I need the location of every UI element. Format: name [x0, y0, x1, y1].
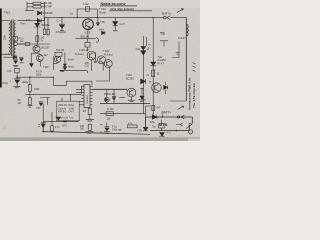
- ground R13: [86, 119, 94, 121]
- wire Q2 base loop: [31, 53, 40, 63]
- svg-text:100k: 100k: [34, 88, 40, 91]
- connector bottom circle: [177, 116, 179, 118]
- wire TVS stem: [160, 120, 162, 131]
- svg-text:BATT+: BATT+: [162, 110, 172, 114]
- junction dot battery rail: [16, 76, 18, 78]
- right down stub: [191, 117, 193, 124]
- wire Q4 emitter down: [90, 60, 92, 71]
- junction tick under box: [63, 120, 67, 122]
- svg-text:TDA4813: TDA4813: [86, 94, 89, 104]
- ground C10: [104, 132, 110, 134]
- svg-text:T10x: T10x: [100, 21, 106, 24]
- diode D8 beside Q7: [164, 82, 168, 95]
- ground bar under R14: [85, 132, 93, 134]
- wire D6 lower: [113, 26, 118, 31]
- stub above junction: [161, 114, 163, 117]
- wire Q3 emitter: [87, 30, 89, 39]
- svg-text:TK 4.7: TK 4.7: [157, 63, 165, 66]
- svg-text:4 HZ: 4 HZ: [83, 2, 89, 6]
- wire T102 emitters: [103, 63, 109, 70]
- capacitor C10: [104, 123, 109, 131]
- bottom wire W1 left: [100, 113, 146, 115]
- wire aux winding lead: [3, 56, 13, 58]
- right bracket marks: [193, 63, 196, 72]
- wire R1 R2 left: [27, 2, 33, 11]
- transistor Q6 circle: [127, 88, 136, 97]
- paper background: [0, 0, 200, 141]
- svg-text:T100: T100: [43, 66, 49, 69]
- wire R8 stem: [29, 94, 31, 98]
- connector MTS chevron: [176, 123, 183, 126]
- transistor Q4 circle: [87, 51, 96, 60]
- wire W1 jog: [146, 106, 151, 117]
- svg-text:6.3 F: 6.3 F: [85, 31, 91, 35]
- trimmer symbol: [96, 38, 98, 43]
- svg-text:C 1u: C 1u: [6, 53, 12, 56]
- crystal branch vertical: [143, 36, 145, 114]
- resistor R10 on W1: [106, 112, 113, 116]
- junction dot W2 right: [176, 130, 178, 132]
- box small coupler: [13, 36, 17, 41]
- fuse F1 body: [86, 7, 90, 11]
- svg-text:1.: 1.: [50, 5, 52, 8]
- transistor Q5 internals: [56, 57, 59, 61]
- wire coupler to rail: [17, 43, 25, 45]
- svg-text:220k 1%: 220k 1%: [58, 105, 67, 107]
- bottom bus W2 right: [150, 130, 189, 132]
- svg-text:B+H+: B+H+: [68, 59, 75, 62]
- electrolytic C1 plates: [59, 24, 65, 28]
- bottom bus W2 left: [43, 132, 150, 135]
- node wire corner mid: [96, 70, 109, 81]
- junction blob on wire: [60, 70, 64, 72]
- connector bottom chevron: [181, 115, 184, 119]
- red ink dot: [3, 126, 6, 129]
- right area rail down: [185, 18, 187, 101]
- junction dot R12: [51, 131, 52, 132]
- junction dot R7: [29, 77, 30, 78]
- svg-text:T 104: T 104: [99, 7, 106, 11]
- diode D9 on W1: [152, 115, 157, 119]
- transistor T102a circle: [98, 56, 106, 64]
- small cap right: [176, 53, 180, 55]
- ground under R8: [27, 106, 32, 108]
- diode D5 on branch: [141, 79, 146, 84]
- battery BT1 electrolytic plates: [14, 79, 20, 84]
- svg-text:100n ngb: 100n ngb: [112, 130, 122, 132]
- wire IC row: [53, 77, 92, 85]
- wire stubs into U3: [62, 94, 70, 101]
- resistor R7 vertical: [28, 85, 31, 92]
- svg-text:100k: 100k: [36, 74, 42, 76]
- wire input stub: [25, 10, 34, 12]
- resistor R14 vertical: [88, 124, 91, 130]
- svg-text:C10: C10: [7, 70, 12, 73]
- transformer TR1 secondary winding: [14, 21, 16, 38]
- resistor R4: [47, 30, 49, 35]
- capacitor C3 polarized: [13, 60, 17, 64]
- svg-text:C10: C10: [136, 48, 141, 51]
- wire LED stems: [106, 89, 108, 103]
- resistor R8 vertical: [28, 98, 31, 105]
- diode pair stack: [63, 64, 67, 70]
- svg-text:T100 4k7: T100 4k7: [79, 49, 90, 52]
- wire right bus corner: [170, 100, 186, 102]
- wire W1 right: [146, 116, 193, 118]
- svg-text:1.45v: 1.45v: [69, 108, 75, 110]
- svg-text:BC237: BC237: [42, 46, 50, 50]
- svg-text:1A: 1A: [70, 13, 73, 16]
- battery BT1 stem and ground: [13, 83, 20, 87]
- LED DL1: [104, 97, 109, 102]
- transistor Q3 internals: [86, 21, 91, 28]
- resistor R6: [85, 42, 90, 47]
- svg-text:Anod: Anod: [68, 66, 74, 69]
- svg-text:BD139: BD139: [81, 35, 89, 38]
- wire R13 stems: [89, 108, 91, 119]
- svg-text:R 17k: R 17k: [36, 72, 43, 74]
- svg-text:4.7v: 4.7v: [26, 19, 31, 22]
- capacitor C8 blob on drop: [41, 123, 46, 132]
- wire W2 right corner up: [188, 124, 190, 130]
- wire battery stem: [16, 73, 18, 79]
- wire segment upper mid: [60, 71, 88, 73]
- crystal pair component: [141, 47, 146, 55]
- svg-text:4.7µ: 4.7µ: [112, 127, 117, 129]
- control box U3: [57, 101, 79, 121]
- transistor Q8 bottom right: [187, 123, 193, 133]
- IC U1 pin wires left: [76, 86, 81, 94]
- zener branch vertical wire: [36, 18, 38, 44]
- svg-text:Ref 2k2: Ref 2k2: [58, 112, 67, 114]
- node vertical join D1 D2: [41, 2, 44, 21]
- inductor L1 bumps: [186, 25, 188, 36]
- svg-text:TM1: TM1: [4, 11, 10, 15]
- wire R3 top: [45, 18, 48, 30]
- IC U1 left pins: [81, 86, 84, 105]
- transistor Q2 circle: [36, 55, 43, 62]
- svg-text:C +: C +: [57, 19, 62, 23]
- zener diode D3: [34, 23, 40, 27]
- BATT+ top connector chevron: [167, 16, 170, 20]
- svg-text:470µ/16v: 470µ/16v: [56, 30, 67, 34]
- wire Q3 collector: [87, 18, 89, 19]
- electrolytic C1 lower stem: [60, 28, 64, 30]
- resistor R9 on left feed: [152, 70, 155, 77]
- svg-text:TS: TS: [160, 32, 165, 36]
- transistor Q4 internals: [90, 53, 94, 59]
- svg-text:- . - .: - . - .: [178, 135, 183, 137]
- left scan edge black bar: [0, 9, 2, 88]
- main top rail wire: [44, 17, 163, 19]
- box logic U2: [55, 52, 62, 56]
- U3 blob: [56, 117, 61, 120]
- wire IC to control box: [79, 102, 81, 105]
- transistor T102b circle: [104, 60, 112, 68]
- svg-text:Cont 4v: Cont 4v: [58, 107, 67, 110]
- svg-text:230v: 230v: [4, 34, 7, 40]
- transistor Q1 circle: [33, 45, 40, 52]
- svg-text:Th+ 4.5k ohje 2m: Th+ 4.5k ohje 2m: [192, 83, 196, 108]
- svg-text:R-Anod: R-Anod: [75, 53, 84, 56]
- resistor R13 vertical mid: [88, 108, 91, 114]
- diode D11 under W2: [159, 133, 164, 137]
- wire Q2 emitter: [40, 61, 42, 66]
- junction dot C1: [61, 17, 62, 18]
- arrow batt top: [177, 9, 183, 13]
- left feed vertical: [152, 18, 154, 115]
- wire secondary top to rectifier: [17, 20, 36, 22]
- diode D1: [38, 11, 42, 15]
- wire mains to primary top: [2, 20, 9, 22]
- corner wire to cap branch: [40, 98, 50, 106]
- transistor Q5 circle: [54, 56, 60, 62]
- electrolytic C1 stem: [61, 18, 63, 24]
- transistor Q7 internals: [154, 84, 158, 91]
- box above battery: [15, 68, 20, 73]
- junction dot W1: [162, 116, 164, 118]
- capacitor C9 top blob: [39, 102, 44, 106]
- capacitor C5: [96, 23, 99, 26]
- svg-text:T on: T on: [69, 118, 74, 120]
- svg-text:Prim: Prim: [21, 23, 26, 26]
- title underline 1: [100, 5, 137, 7]
- junction dot mid rail: [37, 43, 38, 44]
- svg-text:1N4148: 1N4148: [44, 11, 54, 15]
- transistor Q1 internals: [35, 46, 38, 51]
- svg-text:BATT+: BATT+: [162, 12, 172, 16]
- capacitor C2 blob: [29, 63, 33, 66]
- left edge ticks: [100, 125, 102, 132]
- transistor T102b internals: [107, 61, 110, 67]
- svg-text:C+H: C+H: [120, 23, 125, 26]
- transistor Q6 internals: [130, 90, 134, 96]
- wire D2 anode: [36, 20, 37, 22]
- bottom scan shadow band: [0, 137, 200, 141]
- wire C5 stem: [97, 18, 99, 23]
- wire R1 R2 right: [41, 3, 44, 6]
- tee antenna symbol: [160, 41, 168, 47]
- svg-text:virta ohje antenni: virta ohje antenni: [110, 7, 134, 11]
- IC U1 body: [84, 85, 90, 108]
- ground bus mid: [100, 102, 150, 104]
- resistor R15 horizontal: [127, 125, 137, 128]
- resistor R2: [33, 6, 41, 8]
- wire mains to primary bottom: [2, 54, 9, 56]
- secondary right vertical: [172, 42, 179, 58]
- wire diode stack stem: [64, 52, 66, 64]
- svg-text:MTS: MTS: [159, 122, 168, 127]
- transformer TR1 primary winding: [9, 21, 11, 55]
- diode D7 on left feed: [150, 62, 156, 66]
- wire connector to corner: [170, 17, 186, 19]
- IC U1 right pins: [90, 86, 93, 105]
- resistor R11 above W1: [152, 105, 155, 110]
- svg-text:R 10k: R 10k: [107, 108, 114, 111]
- svg-text:1000µ: 1000µ: [22, 81, 29, 84]
- wire D10 stem: [145, 117, 147, 127]
- fuse bypass loop wire: [77, 9, 97, 18]
- wire Q5 leads: [53, 56, 57, 70]
- resistor R16 on mid rail: [25, 43, 30, 46]
- junction dot W2: [42, 131, 44, 133]
- svg-text:BC183: BC183: [126, 78, 134, 81]
- svg-text:1N4+: 1N4+: [150, 122, 156, 124]
- transistor Q2 internals: [38, 55, 41, 60]
- resistor R12 vertical: [51, 126, 54, 131]
- diode D4: [13, 55, 17, 59]
- svg-text:T 102: T 102: [103, 50, 110, 53]
- wire C7 stem: [113, 100, 115, 103]
- transformer TR1 core: [12, 20, 14, 57]
- wire R12 stem: [51, 112, 53, 126]
- svg-text:Toroid: Toroid: [99, 11, 107, 15]
- wire under box: [43, 121, 79, 123]
- diode D2: [37, 19, 41, 23]
- svg-text:Dchg: Dchg: [69, 105, 75, 107]
- svg-text:R.Anod: R.Anod: [104, 54, 113, 57]
- svg-text:2.2M: 2.2M: [137, 130, 142, 132]
- small marks left of C8: [38, 124, 40, 126]
- wire R6 stems: [87, 39, 89, 52]
- ground for C3: [13, 66, 19, 67]
- svg-text:BZX83: BZX83: [42, 23, 50, 27]
- svg-text:NiCd: NiCd: [3, 82, 9, 85]
- capacitor C7: [112, 89, 116, 100]
- svg-text:4k7: 4k7: [18, 102, 23, 105]
- title underline 2: [110, 10, 153, 12]
- resistor R5 on zener branch: [36, 36, 39, 42]
- wire base rail: [76, 38, 96, 40]
- box TVS above W2: [159, 124, 165, 128]
- junction dot loop left: [77, 17, 78, 18]
- vertical drop to W2: [42, 104, 44, 132]
- wire PWR rail from IC: [93, 88, 128, 90]
- diode D10 bottom: [143, 127, 148, 130]
- wire R7 stems: [29, 77, 31, 94]
- optocoupler circle: [14, 42, 18, 46]
- wire corner into Q6: [120, 96, 126, 98]
- arrow batt bottom: [178, 106, 184, 110]
- thyristor ground: [138, 100, 145, 101]
- junction dot loop right: [97, 17, 98, 18]
- transistor Q7 circle: [152, 83, 162, 93]
- junction dot left feed: [153, 17, 154, 18]
- svg-text:C4v7: C4v7: [69, 112, 75, 114]
- svg-text:Nokia bc-conv: Nokia bc-conv: [101, 2, 127, 6]
- wire secondary mid tap: [17, 43, 25, 45]
- BATT+ top connector circle: [164, 16, 167, 19]
- resistor R3: [43, 29, 46, 35]
- diode D6 below rail: [113, 18, 118, 26]
- svg-text:Pwr 05: Pwr 05: [56, 48, 65, 52]
- transistor Q3 power circle: [83, 19, 94, 30]
- battery node rail: [17, 76, 53, 78]
- svg-text:0.4mH: 0.4mH: [178, 37, 186, 40]
- wire mid rail: [25, 43, 50, 45]
- thyristor branch: [140, 88, 144, 99]
- resistor R1: [33, 2, 41, 4]
- mottle smudges: [53, 37, 97, 53]
- capacitor C4: [19, 58, 23, 63]
- crystal second stub: [146, 37, 148, 46]
- capacitor C6: [94, 52, 98, 62]
- svg-text:47R: 47R: [80, 126, 85, 128]
- svg-text:NTC: NTC: [63, 125, 68, 127]
- transistor T102a internals: [100, 57, 103, 63]
- feedback rail to IC: [25, 93, 81, 95]
- junction dot row: [53, 77, 54, 78]
- svg-text:C10: C10: [85, 65, 90, 68]
- wire Q6 emitter ground: [128, 97, 135, 102]
- svg-text:4k7: 4k7: [44, 53, 49, 57]
